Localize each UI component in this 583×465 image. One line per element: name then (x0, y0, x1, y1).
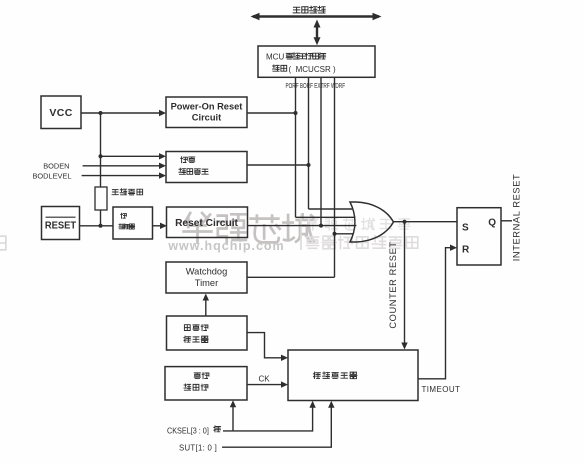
wire reset circuit out to gate (248, 225, 357, 227)
wire WDRF riser branch to gate (335, 233, 354, 235)
wire watchdog out (247, 276, 335, 278)
svg-text:Q: Q (488, 218, 496, 229)
block brown-out 欠压复位电路 (166, 152, 247, 183)
VCC box (41, 96, 81, 129)
wire BORF to gate (309, 208, 353, 210)
watermark 华强芯城 big (184, 213, 315, 243)
node VCC rail junction (99, 111, 103, 115)
wire EXTRF line (320, 77, 322, 225)
block watchdog timer (166, 262, 247, 293)
wire oscillator to delay counter (247, 333, 282, 358)
flip-flop SR latch (457, 208, 501, 265)
wire gate output (394, 221, 458, 223)
node counter-reset branch (403, 220, 407, 224)
wire WDRF line (334, 77, 336, 277)
register box MCUCSR (258, 46, 375, 77)
svg-text:Reset Circuit: Reset Circuit (175, 218, 238, 229)
wire VCC rail down (100, 113, 102, 187)
svg-text:S: S (462, 223, 469, 234)
node WDRF join (333, 232, 337, 236)
node EXTRF join (319, 224, 323, 228)
block clock generator 时钟发生机 (165, 367, 247, 400)
block delay counter 延迟计数器 (288, 350, 418, 401)
bus vertical double arrow (316, 24, 318, 42)
svg-text:Circuit: Circuit (192, 113, 221, 123)
svg-text:BODEN: BODEN (43, 162, 69, 171)
label 上拉电阻 (112, 189, 143, 195)
svg-text:INTERNAL RESET: INTERNAL RESET (512, 174, 522, 262)
RESET overline (46, 216, 76, 218)
RESET box (42, 207, 80, 240)
block power-on reset circuit (166, 97, 247, 128)
svg-text:Timer: Timer (195, 278, 218, 288)
watermark 元器件在线商城 faint (307, 236, 418, 249)
wire BODLEVEL (82, 175, 160, 177)
svg-text:VCC: VCC (49, 107, 72, 119)
wire filter to reset circuit (153, 225, 161, 227)
wire CK (247, 384, 282, 386)
block watchdog oscillator 看门狗振荡器 (167, 316, 248, 350)
svg-text:COUNTER RESET: COUNTER RESET (388, 241, 398, 328)
label 注册 MCUCSR (272, 65, 335, 74)
watermark fragment left edge (0, 236, 6, 250)
label 滤波器 (119, 224, 135, 229)
svg-text:www.hqchip.com: www.hqchip.com (167, 239, 284, 253)
label 毛刺 (121, 213, 127, 218)
wire BORF line (308, 77, 310, 209)
svg-text:CK: CK (259, 375, 271, 384)
block reset circuit (167, 207, 248, 238)
wire CKSEL (223, 407, 313, 431)
svg-text:Power-On Reset: Power-On Reset (171, 102, 243, 112)
data bus line (253, 15, 379, 17)
wire BODEN (83, 165, 160, 167)
wire resistor to reset node (100, 210, 102, 226)
node BOD vcc branch (99, 154, 103, 158)
label CKSEL[3:0] (167, 426, 220, 436)
spike filter box (113, 207, 153, 239)
wire PORF to gate (296, 216, 356, 218)
wire timeout (418, 248, 451, 379)
wire rail to brown-out (101, 155, 161, 157)
wire oscillator to watchdog timer (205, 299, 207, 316)
svg-text:TIMEOUT: TIMEOUT (422, 385, 461, 394)
svg-text:Watchdog: Watchdog (186, 267, 228, 277)
watermark divider bar (300, 214, 302, 250)
svg-text:BODLEVEL: BODLEVEL (32, 172, 71, 181)
svg-text:MCU: MCU (266, 53, 284, 62)
watermark 华强芯城旗下 faint (307, 218, 410, 230)
svg-text:SUT[1: 0 ]: SUT[1: 0 ] (179, 443, 217, 452)
wire SUT (222, 407, 331, 448)
wire brown-out out (247, 164, 309, 166)
svg-text:CKSEL[3 : 0]: CKSEL[3 : 0] (167, 426, 209, 435)
svg-text:RESET: RESET (45, 220, 76, 231)
wire counter reset (404, 222, 406, 344)
node reset junction (99, 224, 103, 228)
resistor pull-up (95, 187, 107, 210)
wire power-on out (247, 112, 296, 114)
wire RESET to filter (80, 225, 114, 227)
label 数据总线 (293, 6, 325, 13)
svg-text:( MCUCSR ): ( MCUCSR ) (289, 65, 336, 74)
label MCU控制和状态 (266, 53, 326, 62)
or-gate U1 (350, 202, 394, 242)
wire CKSEL riser to clock generator (232, 406, 234, 431)
svg-text:R: R (462, 245, 470, 256)
wire PORF line (295, 77, 297, 217)
wire Q output (501, 220, 512, 222)
wire VCC to power-on reset (81, 112, 160, 114)
svg-text:PORF BORF EXTRF WDRF: PORF BORF EXTRF WDRF (286, 82, 346, 90)
